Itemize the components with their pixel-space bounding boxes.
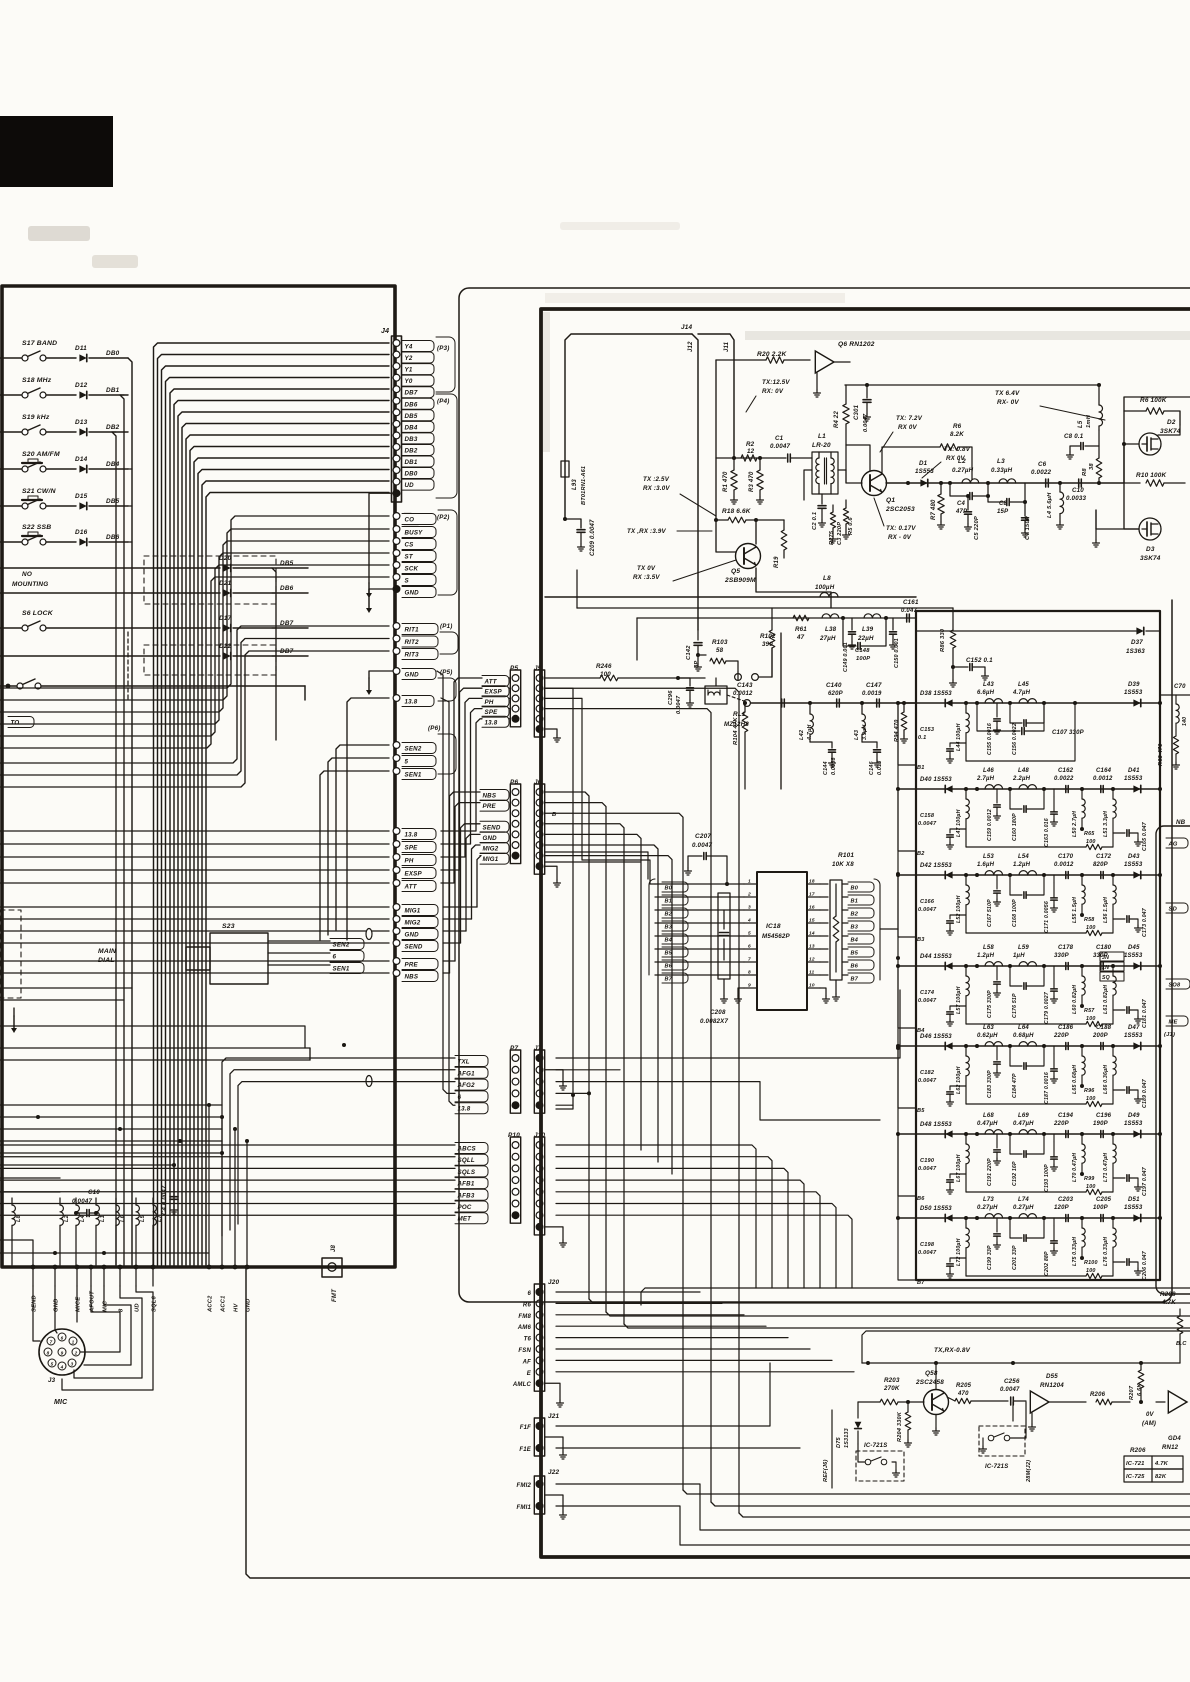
resistor R99 100 [1086,1189,1102,1194]
svg-text:J4: J4 [381,328,389,335]
wire Y1 bus [162,366,390,1265]
IC18 pin 8 [744,974,757,976]
svg-text:L3: L3 [997,458,1005,465]
svg-text:0.0019: 0.0019 [862,691,882,697]
IC18 pin 7 [744,961,757,963]
inductor L63 [985,1042,1003,1046]
svg-text:B2: B2 [851,912,859,918]
capacitor C155 0.0016 [996,708,998,717]
wire control bus [0,516,389,688]
wire mixer out [751,702,916,704]
wire main line [886,482,1124,484]
svg-text:C202 88P: C202 88P [1044,1251,1050,1276]
svg-text:RX :3.5V: RX :3.5V [633,574,660,581]
svg-text:C256: C256 [1004,1378,1020,1385]
svg-text:0.0012: 0.0012 [733,691,753,697]
wire DB bus [182,424,389,1266]
filter row D40 [898,788,1160,790]
wire [545,856,672,1174]
svg-text:NBS: NBS [405,974,419,981]
wire to P7 [222,1058,455,1236]
capacitor C209 [565,519,581,528]
svg-text:C189 0.047: C189 0.047 [1142,1078,1148,1108]
svg-text:0.1: 0.1 [918,735,926,741]
svg-text:12: 12 [747,448,755,455]
wire to P10 [0,1203,455,1205]
svg-text:R100: R100 [1084,1260,1098,1266]
svg-text:820P: 820P [1093,862,1109,868]
scan smudge 2 [92,255,138,268]
svg-text:470: 470 [957,1391,969,1397]
wire PRE long [0,960,389,962]
capacitor C206 0.047 [1113,1261,1125,1263]
svg-text:D37: D37 [1131,639,1143,646]
svg-text:EXSP: EXSP [485,689,503,696]
no-mounting dashed box [144,556,276,604]
svg-text:1S553: 1S553 [1124,1121,1143,1127]
switch row D15 [0,505,25,507]
svg-text:0.0082X7: 0.0082X7 [700,1018,728,1025]
svg-text:C192 16P: C192 16P [1012,1161,1018,1186]
wire [128,505,132,507]
capacitor C163 0.016 [1053,789,1055,797]
node SPE P5 [482,706,509,717]
svg-text:C107 330P: C107 330P [1052,730,1085,736]
svg-text:MIG1: MIG1 [483,856,499,863]
svg-text:J8: J8 [331,1244,337,1252]
svg-text:0V: 0V [1146,1412,1155,1418]
svg-text:RN12: RN12 [1162,1445,1179,1451]
wire gnd tap [369,671,393,678]
wire to P7 [230,1070,455,1230]
bracket P3 [436,337,455,392]
svg-text:12: 12 [809,957,815,963]
svg-text:FM8: FM8 [518,1314,531,1320]
svg-text:C197 0.047: C197 0.047 [1142,1166,1148,1196]
svg-text:FMI2: FMI2 [517,1483,532,1489]
IC18 pin 1 [744,883,757,885]
svg-text:2SC2458: 2SC2458 [915,1379,944,1386]
svg-text:C196: C196 [1096,1113,1112,1119]
svg-text:D48 1S553: D48 1S553 [920,1122,952,1128]
svg-text:D45: D45 [1128,945,1140,951]
diode D51 [1133,1214,1140,1221]
J4 pin UD [393,478,400,485]
node AFG1 P7 [455,1067,488,1078]
node SEN2 [393,742,400,749]
wire J11 [698,334,734,458]
wire [0,1026,305,1048]
connector J4 [392,336,402,502]
no-mounting dashed box 2 [144,645,276,675]
IC18 pin 2 [744,896,757,898]
svg-text:9: 9 [61,1350,64,1355]
node B1 left tag [662,895,688,905]
wire control bus [0,529,389,700]
svg-text:C166: C166 [920,899,935,905]
switch row D14 [0,468,25,470]
node ACC2 [207,1265,212,1270]
wire acc risers [208,1105,210,1267]
ground [562,1512,564,1515]
capacitor C198 0.0047 [950,1258,966,1262]
svg-text:C187 0.0016: C187 0.0016 [1044,1072,1050,1104]
svg-text:15: 15 [809,918,815,924]
capacitor C168 100P [1010,894,1022,896]
node 6 [268,952,330,954]
svg-text:2: 2 [747,892,751,898]
inductor L61 [1112,966,1114,976]
node NBS P6 [480,790,509,801]
svg-text:IC-721S: IC-721S [864,1443,887,1449]
wire control bus [0,553,389,724]
diode D46 [945,1042,952,1049]
svg-text:MIC: MIC [54,1399,68,1406]
wire [545,834,641,1150]
node TO [8,717,34,728]
svg-text:C2 0.1: C2 0.1 [812,512,818,530]
svg-text:F1F: F1F [520,1425,531,1431]
transistor Q58 [924,1390,949,1415]
wire control bus [0,577,389,748]
svg-text:L59: L59 [1018,945,1029,951]
svg-text:SQ: SQ [1102,975,1110,981]
wire [545,813,683,1490]
svg-text:Y4: Y4 [405,344,413,351]
node B6 right line [820,961,828,963]
filter row D42 [898,874,1160,876]
wire Y0 bus [166,378,390,1266]
wire MIG2 to P6 [443,918,472,920]
svg-text:R103: R103 [712,639,728,646]
svg-text:L43: L43 [854,729,860,740]
svg-text:0.0047: 0.0047 [1000,1387,1020,1393]
node MICE [75,1265,80,1270]
bandpass filter box [916,611,1160,1280]
svg-text:(AM): (AM) [1142,1421,1156,1427]
IC18 pin 18 [807,883,820,885]
svg-text:MIG2: MIG2 [483,846,499,853]
amplifier Q6 [815,351,834,373]
wire DB bus [198,470,389,1266]
capacitor C167 510P [996,880,998,889]
capacitor C173 0.047 [1113,918,1125,920]
inductor L6 [116,1205,119,1225]
svg-text:(P3): (P3) [437,345,450,352]
ground [562,1452,564,1455]
filter row D38 [898,702,1160,704]
wire [0,1152,222,1154]
svg-text:B6: B6 [917,1196,925,1202]
svg-text:ACC1: ACC1 [221,1295,227,1313]
svg-text:L4 5.6µH: L4 5.6µH [1047,492,1053,518]
capacitor C197 0.047 [1113,1177,1125,1179]
svg-text:ATT: ATT [404,884,418,891]
svg-text:BUSY: BUSY [405,530,424,537]
wire MIG2 long [0,918,389,920]
svg-text:3: 3 [748,905,751,911]
svg-text:L61 0.82µH: L61 0.82µH [1103,985,1109,1014]
inductor L8 [12,1205,15,1225]
capacitor C199 33P [996,1223,998,1232]
wire [545,688,739,1513]
node PRE [393,958,400,965]
svg-text:AM6: AM6 [517,1325,532,1331]
capacitor C107 [977,703,1020,731]
node 8 [118,1265,123,1270]
capacitor C159 0.0012 [996,794,998,803]
svg-text:C193 100P: C193 100P [1044,1164,1050,1192]
inductor L54 [1019,871,1037,875]
svg-text:L76 0.33µH: L76 0.33µH [1103,1237,1109,1266]
IC18 pin 10 [807,987,820,989]
IC IC18 [757,872,807,1010]
svg-text:B6: B6 [851,964,859,970]
node MET P10 [455,1213,488,1224]
svg-text:0.0047: 0.0047 [918,821,937,827]
J4 pin DB5 [393,409,400,416]
svg-text:D46 1S553: D46 1S553 [920,1034,952,1040]
svg-text:FMT: FMT [332,1288,338,1302]
svg-text:0.27µH: 0.27µH [977,1205,998,1211]
svg-text:L65 0.68µH: L65 0.68µH [1072,1065,1078,1094]
wire PH long [0,856,389,858]
node B6 [898,1134,916,1196]
svg-text:0.0047: 0.0047 [918,1166,937,1172]
svg-text:C174: C174 [920,990,935,996]
filter row D44 [898,965,1160,967]
J4 pin DB0 [393,467,400,474]
node GND [245,1265,250,1270]
svg-text:SEN2: SEN2 [333,942,350,949]
wire 13.8 long [0,830,389,832]
inductor L70 [1081,1134,1083,1144]
svg-text:1S3133: 1S3133 [844,1428,850,1448]
svg-text:FMI1: FMI1 [517,1505,532,1511]
svg-text:R58: R58 [1084,917,1095,923]
svg-text:7: 7 [748,957,751,963]
capacitor C171 0.0056 [1053,875,1055,883]
J4 pin DB7 [393,386,400,393]
node EXSP [393,867,400,874]
svg-text:J20: J20 [548,1279,560,1286]
IC18 pin 6 [744,948,757,950]
svg-text:100: 100 [1086,925,1096,931]
svg-text:1: 1 [748,879,751,885]
svg-text:L69: L69 [1018,1113,1029,1119]
svg-text:TO: TO [11,720,20,727]
diode D50 [945,1214,952,1221]
inductor L43 [985,699,1003,703]
capacitor C160 180P [1010,808,1022,810]
svg-text:L54: L54 [1018,854,1029,860]
diode D15 [79,502,86,509]
inductor L74 [1019,1214,1037,1218]
svg-text:GND: GND [405,932,420,939]
svg-text:C184 47P: C184 47P [1012,1073,1018,1098]
diode D12 [79,391,86,398]
node 13.8 [393,828,400,835]
inductor L5 [136,1205,139,1225]
capacitor C156 0.0022 [1010,722,1022,724]
diode D38 [945,699,952,706]
switch row D12 [0,394,25,396]
svg-text:R20 2.2K: R20 2.2K [757,351,787,358]
node SQLL P10 [455,1154,488,1165]
switch row D21 [0,592,220,594]
svg-text:R104 47K: R104 47K [733,717,739,745]
NB block border [1156,826,1190,1294]
J4 pin DB3 [393,432,400,439]
svg-text:C143: C143 [737,682,753,689]
inductor L64 [1019,1042,1037,1046]
switch row D11 [0,357,25,359]
wire [545,824,624,1324]
node AFOUT [89,1265,94,1270]
wire [120,394,124,396]
svg-text:4: 4 [747,918,751,924]
FET D3 3SK74 [1139,518,1161,540]
black index block [0,116,113,187]
svg-text:C163 0.016: C163 0.016 [1044,818,1050,847]
diode D45 [1133,962,1140,969]
J4 pin DB2 [393,444,400,451]
svg-text:L63: L63 [983,1025,994,1031]
svg-text:D3: D3 [1146,546,1155,553]
svg-text:C199 33P: C199 33P [987,1245,993,1270]
node 13.8 P5 [482,716,509,727]
ground [1095,510,1097,540]
wire 5 [328,758,389,935]
value boxes [1100,952,1124,961]
diode D48 [945,1130,952,1137]
wire GND long [0,930,389,932]
IC18 pin 16 [807,909,820,911]
svg-text:NO: NO [22,571,32,578]
ground [562,1240,564,1243]
inductor L62 100µH [965,1046,967,1056]
node B6 right tag [848,960,874,970]
wire [545,803,606,1312]
node B0 right line [820,883,828,885]
svg-text:J21: J21 [548,1413,560,1420]
logic unit block border [2,286,395,1267]
svg-text:R94 470: R94 470 [894,719,900,742]
wire bus D20 column [272,568,276,740]
wire rail 618 [637,617,916,619]
IC18 pin 5 [744,935,757,937]
wire SEND long [0,942,389,944]
node SEND [31,1265,36,1270]
wire filter output [1160,694,1190,696]
wire J22 feeds [556,1484,1190,1530]
svg-text:ST: ST [405,554,414,561]
wire DB bus [170,389,389,1265]
ground arrow left [13,1016,15,1028]
svg-text:R86 330: R86 330 [940,628,946,652]
transistor Q1 [862,471,887,496]
wire 13.8 to P7 [441,698,455,1105]
svg-text:C167 510P: C167 510P [987,899,993,927]
svg-text:C205: C205 [1096,1197,1112,1203]
node PH [393,854,400,861]
svg-text:PH: PH [485,699,494,706]
svg-text:0.0047: 0.0047 [918,998,937,1004]
svg-text:B5: B5 [917,1108,925,1114]
svg-text:4: 4 [60,1364,64,1369]
svg-text:D39: D39 [1128,682,1140,688]
wire RIT3 [0,651,389,787]
diode D17 [223,624,230,631]
svg-text:1S363: 1S363 [1126,648,1145,655]
inductor L45 [1019,699,1037,703]
node CO [393,513,400,520]
svg-text:(P2): (P2) [437,514,450,521]
diode D43 [1133,871,1140,878]
svg-text:HV: HV [234,1303,240,1312]
inductor L56 [1112,875,1114,885]
dashed connector box left [0,910,21,998]
wire DB bus [194,458,389,1265]
dashed box IC-721S left [856,1451,904,1481]
svg-text:L1: L1 [818,433,826,440]
svg-text:D22: D22 [219,643,232,650]
svg-text:RX - 0V: RX - 0V [888,534,912,541]
svg-text:C209 0.0047: C209 0.0047 [590,519,596,556]
svg-text:DB6: DB6 [280,585,294,592]
svg-text:R207: R207 [1129,1385,1135,1400]
node GND P6 [480,832,509,843]
capacitor C190 0.0047 [950,1174,966,1178]
svg-text:L45: L45 [1018,682,1029,688]
capacitor C202 88P [1053,1218,1055,1226]
svg-text:8: 8 [748,970,751,976]
svg-text:SEN2: SEN2 [405,746,422,753]
svg-text:BT01RN1-A61: BT01RN1-A61 [581,466,587,505]
svg-text:RX :3.0V: RX :3.0V [643,485,670,492]
bracket P1 [440,632,458,654]
svg-text:IC-725: IC-725 [1126,1474,1145,1480]
bracket P5 [438,678,456,701]
wire sen2 [336,745,389,930]
bracket P2 [438,510,457,595]
svg-text:AG: AG [1168,842,1178,848]
svg-text:D75: D75 [836,1436,842,1448]
wire J5 riser [545,688,573,1109]
connector J8 FMT [322,1258,342,1277]
wire [0,1252,209,1254]
svg-text:AMLC: AMLC [512,1382,532,1388]
svg-text:S19 kHz: S19 kHz [22,414,50,421]
svg-text:100P: 100P [856,656,870,662]
svg-text:C6: C6 [1038,461,1047,468]
inductor L53 [985,871,1003,875]
svg-text:SD: SD [1169,907,1178,913]
wire [0,1177,60,1179]
svg-text:L46: L46 [983,768,994,774]
inductor L76 [1112,1218,1114,1228]
svg-text:M54562P: M54562P [762,933,791,940]
svg-text:DB5: DB5 [405,413,418,420]
svg-text:1S553: 1S553 [1124,690,1143,696]
diode D39 [1133,699,1140,706]
node PRE P6 [480,800,509,811]
wire [0,987,132,989]
inductor L2 [60,1205,63,1225]
svg-text:B1: B1 [665,899,673,905]
wire bundle bottom turns [683,1490,1190,1494]
inductor L73 [985,1214,1003,1218]
